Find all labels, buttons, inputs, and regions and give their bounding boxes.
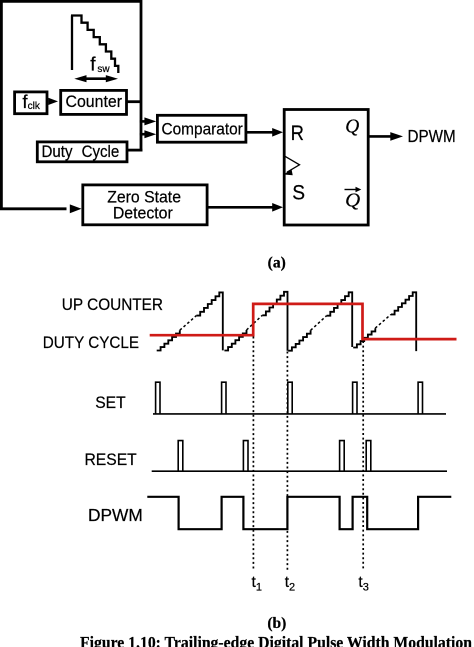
waveform RESET baseline <box>152 470 447 472</box>
svg-text:Comparator: Comparator <box>162 119 244 138</box>
pulse SET 4 <box>353 382 357 414</box>
clock edge-trigger wedge on latch <box>285 156 300 172</box>
block comparator <box>157 115 246 142</box>
svg-text:SET: SET <box>95 393 126 412</box>
svg-text:(a): (a) <box>268 254 286 271</box>
pulse RESET 3 <box>340 441 345 472</box>
waveform DPWM trace <box>147 497 451 529</box>
wire feedback loop from counter output around left/top border to zero state detector input <box>1 1 141 208</box>
wire comparator input A stub <box>140 120 145 123</box>
svg-text:Detector: Detector <box>113 203 173 222</box>
waveform duty cycle reference (red) <box>150 304 457 339</box>
wire comparator output to latch R input <box>247 131 273 134</box>
svg-text:R: R <box>291 121 304 145</box>
wire counter output to feedback node <box>127 100 141 103</box>
block fclk <box>15 92 47 114</box>
double-headed arrow fsw period <box>74 75 118 82</box>
svg-text:DUTY CYCLE: DUTY CYCLE <box>43 333 139 352</box>
svg-text:Figure 1.10: Trailing-edge Dig: Figure 1.10: Trailing-edge Digital Pulse… <box>80 633 472 647</box>
dotted timeline t1 <box>252 337 254 571</box>
waveform up-counter ramp 1 <box>157 292 223 350</box>
pulse SET 5 <box>418 382 422 414</box>
pulse RESET 4 <box>366 441 371 472</box>
sampled staircase icon above counter <box>71 16 118 74</box>
arrowhead comparator input B <box>144 130 156 138</box>
arrowhead fclk to counter <box>48 98 58 105</box>
waveform up-counter ramp 2 <box>224 292 287 351</box>
waveform up-counter ramp 4 <box>353 292 416 351</box>
pulse RESET 1 <box>178 441 183 472</box>
block zero state detector <box>83 185 207 225</box>
svg-text:Q: Q <box>345 190 360 212</box>
svg-text:RESET: RESET <box>85 450 137 469</box>
svg-text:DPWM: DPWM <box>408 126 456 146</box>
svg-text:Q: Q <box>345 117 359 138</box>
svg-text:(b): (b) <box>267 615 286 632</box>
block counter <box>61 90 127 114</box>
svg-text:Cycle: Cycle <box>82 142 120 161</box>
svg-text:clk: clk <box>28 101 41 112</box>
arrowhead comparator input A <box>144 117 156 125</box>
pulse SET 1 <box>156 382 160 414</box>
wire duty cycle output to feedback column <box>127 149 142 152</box>
wire comparator input B stub <box>140 133 145 136</box>
svg-text:Counter: Counter <box>66 92 123 111</box>
block duty cycle <box>37 142 127 162</box>
svg-text:Duty: Duty <box>42 142 74 161</box>
arrowhead DPWM output <box>390 132 403 141</box>
dotted timeline t3 <box>362 341 364 571</box>
arrowhead into zero state detector <box>70 204 82 213</box>
svg-text:f: f <box>90 55 96 76</box>
pulse RESET 2 <box>243 441 248 472</box>
pulse SET 2 <box>222 382 226 414</box>
arrowhead into latch S input <box>272 203 283 212</box>
waveform SET baseline <box>153 413 446 415</box>
waveform up-counter ramp 3 <box>288 292 352 350</box>
svg-text:UP COUNTER: UP COUNTER <box>62 295 163 314</box>
wire latch Q output to DPWM <box>369 135 391 138</box>
wire zero state detector output to latch S input <box>207 206 273 209</box>
pulse SET 3 <box>288 382 292 414</box>
svg-text:sw: sw <box>97 64 110 75</box>
svg-text:S: S <box>292 181 305 205</box>
svg-text:DPWM: DPWM <box>88 505 143 525</box>
arrowhead into latch R input <box>272 128 283 137</box>
sr-latch U1 <box>284 110 368 226</box>
dotted timeline t2 <box>286 352 288 571</box>
